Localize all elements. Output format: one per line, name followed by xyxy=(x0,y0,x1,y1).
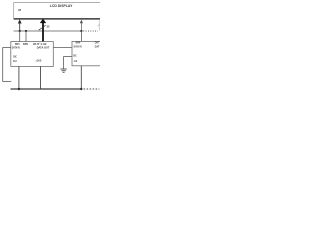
svg-text:LOAD: LOAD xyxy=(36,59,42,63)
node BP bus (backplane line) xyxy=(14,30,82,32)
svg-text:DATA IN: DATA IN xyxy=(74,45,83,49)
wire U2 enable to ground xyxy=(64,56,72,69)
bus slash mark xyxy=(39,25,46,30)
svg-text:OSC: OSC xyxy=(13,54,17,58)
svg-text:DATA IN: DATA IN xyxy=(12,46,20,50)
svg-text:32: 32 xyxy=(47,24,50,28)
wire clock bus dashed continuation xyxy=(84,88,100,90)
wire BP bus dashed continuation xyxy=(83,30,98,32)
junction dot BPN right xyxy=(80,30,82,32)
bus slash mark U2 clipped xyxy=(98,24,100,26)
wire BP arrow into display (left) xyxy=(18,19,22,31)
wire DATA IN stub xyxy=(3,46,11,48)
wire BPN pin to chip U2 xyxy=(80,31,82,41)
LCD display box xyxy=(14,3,100,19)
svg-text:OSC: OSC xyxy=(73,54,77,58)
chip U2 (LCD driver, clipped) xyxy=(72,41,102,65)
LCD display bottom edge (dark) xyxy=(14,18,100,20)
junction dot clock left xyxy=(18,88,20,90)
wire DATA IN feed vertical xyxy=(2,47,4,81)
ground xyxy=(60,69,66,72)
junction dot BPN xyxy=(25,30,27,32)
wire BP arrow into display (right) xyxy=(80,20,83,31)
node clock bus (bottom) xyxy=(11,88,82,90)
svg-text:CLK: CLK xyxy=(13,59,17,63)
wire BPN pin to chip U1 xyxy=(25,31,27,42)
svg-text:BP: BP xyxy=(18,8,21,12)
wire BP0 pin to chip U1 xyxy=(19,31,21,42)
wire U1 CLK pin drop xyxy=(18,66,20,89)
junction dot clock right xyxy=(80,88,82,90)
wire U2 OUT arrow clipped at edge xyxy=(98,21,100,31)
svg-text:LCD DISPLAY: LCD DISPLAY xyxy=(50,4,74,8)
wire DATA IN feed horizontal tail xyxy=(3,81,12,83)
bus arrow OUT 1-32 from U1 to display (thick) xyxy=(40,19,46,42)
wire DATA OUT U1 to DATA IN U2 xyxy=(53,47,72,49)
svg-text:BPN: BPN xyxy=(23,42,29,46)
op chip U1 (LCD driver) xyxy=(11,42,54,67)
svg-text:DATA OUT: DATA OUT xyxy=(37,46,50,50)
wire U2 CLK pin drop xyxy=(80,66,82,89)
wire U1 LOAD pin drop xyxy=(40,66,42,89)
svg-text:DAT: DAT xyxy=(95,45,100,49)
junction dot BP0 xyxy=(19,30,21,32)
svg-text:CLK: CLK xyxy=(74,59,78,63)
